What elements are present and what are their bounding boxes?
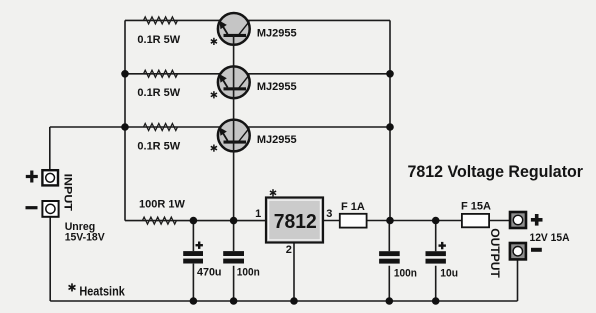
svg-text:2: 2 <box>286 244 292 256</box>
svg-text:MJ2955: MJ2955 <box>257 81 297 93</box>
svg-text:10u: 10u <box>440 267 458 279</box>
svg-text:F 15A: F 15A <box>461 201 491 213</box>
svg-text:12V 15A: 12V 15A <box>530 232 570 244</box>
svg-text:0.1R 5W: 0.1R 5W <box>137 34 180 46</box>
svg-text:Heatsink: Heatsink <box>79 283 125 298</box>
svg-text:MJ2955: MJ2955 <box>257 134 297 146</box>
svg-text:F 1A: F 1A <box>341 201 365 213</box>
svg-text:7812 Voltage Regulator: 7812 Voltage Regulator <box>408 162 584 181</box>
svg-text:0.1R 5W: 0.1R 5W <box>137 87 180 99</box>
svg-text:100n: 100n <box>237 266 260 278</box>
svg-text:INPUT: INPUT <box>61 174 73 212</box>
svg-text:100n: 100n <box>394 267 417 279</box>
svg-text:0.1R 5W: 0.1R 5W <box>137 140 180 152</box>
svg-text:7812: 7812 <box>274 211 317 233</box>
svg-text:OUTPUT: OUTPUT <box>488 228 502 278</box>
svg-text:100R 1W: 100R 1W <box>139 199 185 211</box>
svg-text:3: 3 <box>326 208 332 220</box>
svg-text:15V-18V: 15V-18V <box>65 232 106 244</box>
svg-text:1: 1 <box>255 208 261 220</box>
svg-text:470u: 470u <box>197 266 222 278</box>
svg-text:MJ2955: MJ2955 <box>257 28 297 40</box>
